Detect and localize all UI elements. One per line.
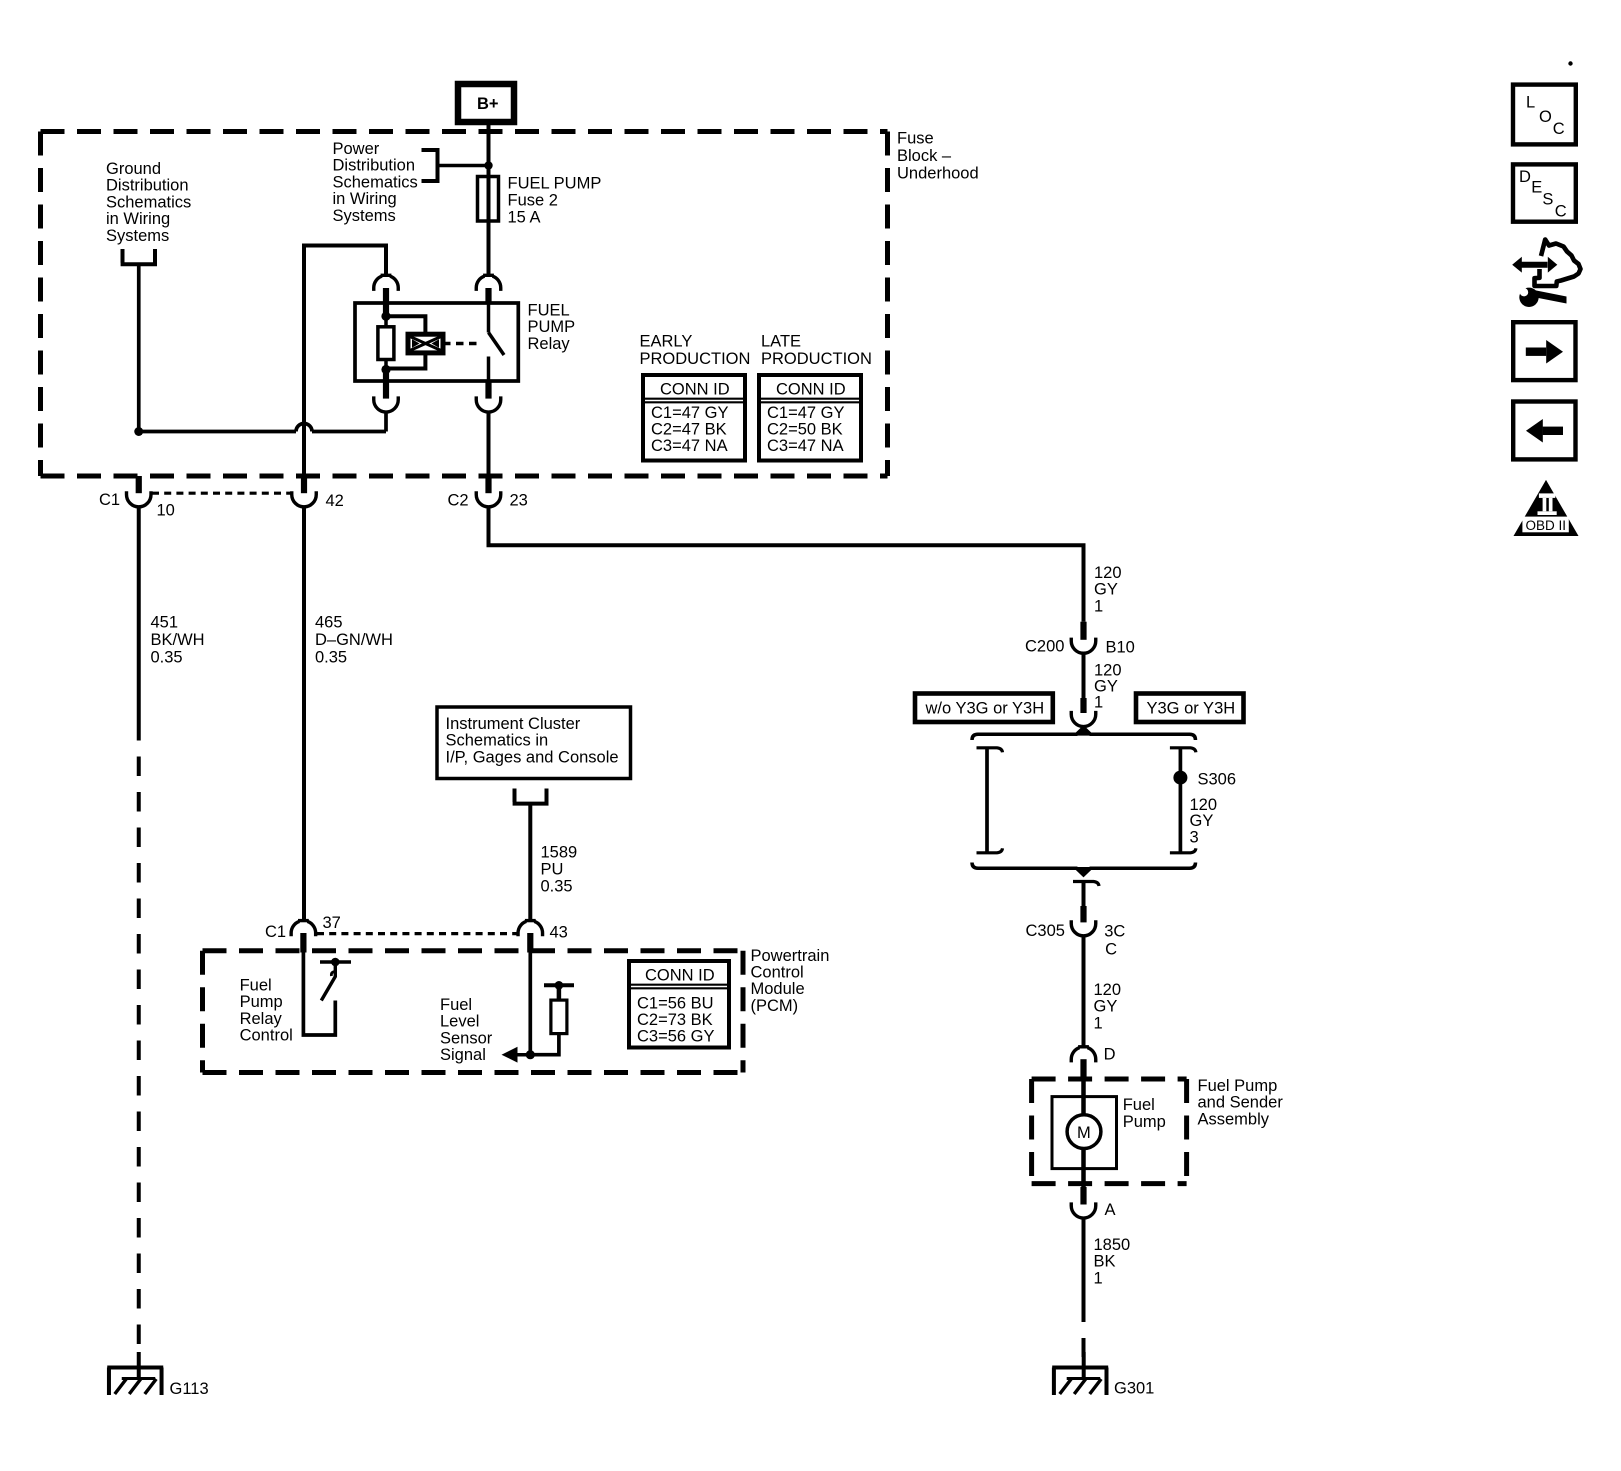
svg-text:C200: C200	[1025, 638, 1064, 656]
relay switch contact	[476, 275, 504, 381]
wire bracket to B+ node	[438, 164, 489, 168]
svg-text:C: C	[1553, 120, 1565, 138]
wire 465 D-GN/WH	[302, 507, 306, 921]
svg-text:B+: B+	[477, 95, 499, 113]
instrument cluster reference box	[437, 707, 631, 779]
svg-text:LATE: LATE	[761, 333, 801, 351]
svg-text:23: 23	[510, 492, 528, 510]
svg-text:OBD II: OBD II	[1526, 518, 1567, 533]
svg-text:EARLY: EARLY	[640, 333, 693, 351]
svg-text:C1: C1	[99, 491, 120, 509]
svg-text:C2=50 BK: C2=50 BK	[767, 421, 843, 439]
svg-text:3C: 3C	[1104, 923, 1125, 941]
svg-text:C3=56 GY: C3=56 GY	[637, 1027, 715, 1045]
option spread brace top	[972, 728, 1196, 740]
relay actuator dashed link	[443, 342, 482, 345]
power distribution bracket	[422, 150, 438, 181]
signal arrow	[502, 1047, 531, 1063]
connector C305 pin 3C/C	[1026, 882, 1126, 959]
svg-text:PRODUCTION: PRODUCTION	[761, 350, 872, 368]
icon LOC	[1513, 85, 1576, 145]
PCM internal pull-up resistor branch	[526, 981, 574, 1059]
svg-text:B10: B10	[1106, 638, 1135, 656]
svg-text:C2=47 BK: C2=47 BK	[651, 421, 727, 439]
svg-text:G113: G113	[170, 1380, 209, 1398]
fuse FUEL PUMP Fuse 2 15A	[478, 177, 499, 276]
relay FUEL PUMP Relay box	[355, 303, 518, 381]
icon next arrow	[1513, 322, 1575, 380]
PCM driver switch	[303, 953, 351, 1036]
wire C2 to C200	[489, 507, 1084, 622]
dotted connector link C1	[152, 492, 291, 495]
node junction dot	[484, 161, 492, 169]
relay internal resistor	[384, 316, 388, 369]
svg-text:C305: C305	[1026, 922, 1065, 940]
svg-text:CONN ID: CONN ID	[660, 381, 730, 399]
svg-text:C1: C1	[265, 923, 286, 941]
relay bottom connectors	[374, 370, 501, 412]
wire 1589 PU	[528, 805, 532, 921]
ground G113	[107, 1352, 208, 1398]
svg-text:C: C	[1105, 940, 1117, 958]
svg-text:M: M	[1077, 1124, 1091, 1142]
svg-text:C2=73 BK: C2=73 BK	[637, 1011, 713, 1029]
wire 1850 BK	[1082, 1218, 1086, 1303]
relay coil top connector	[374, 275, 399, 291]
icon DESC	[1513, 164, 1576, 221]
wire C305 to D	[1082, 936, 1086, 1048]
svg-text:S306: S306	[1198, 771, 1237, 789]
svg-text:E: E	[1531, 179, 1542, 197]
connector pin A	[1071, 1187, 1115, 1219]
svg-text:D: D	[1104, 1046, 1116, 1064]
svg-text:C: C	[1555, 203, 1567, 221]
connector pin 43 PCM	[518, 921, 568, 953]
wire relay 30 down to C2	[487, 412, 491, 477]
svg-text:C3=47 NA: C3=47 NA	[767, 437, 844, 455]
option box w/o Y3G or Y3H	[915, 694, 1053, 723]
ground distribution off-page bucket	[121, 249, 157, 264]
relay coil solenoid symbol	[408, 334, 443, 353]
svg-text:C1=47 GY: C1=47 GY	[651, 404, 729, 422]
option spread brace bottom	[972, 863, 1196, 875]
wire horizontal 42 to relay pin 86	[304, 246, 386, 477]
instrument cluster off-page bucket	[513, 789, 549, 804]
PCM CONN ID table	[629, 961, 729, 1048]
svg-text:43: 43	[550, 924, 568, 942]
option box Y3G or Y3H	[1136, 694, 1244, 723]
connector C1 pin 10	[99, 476, 175, 520]
wire 43 to sensor node	[528, 953, 532, 1055]
svg-text:G301: G301	[1114, 1380, 1154, 1398]
LATE PRODUCTION table	[759, 333, 872, 461]
svg-text:FUELPUMPRelay: FUELPUMPRelay	[528, 302, 576, 353]
dotted connector link PCM	[317, 932, 517, 935]
icon back arrow	[1513, 402, 1575, 460]
connector pin D	[1071, 1046, 1115, 1080]
wire C200 to splice spread	[1082, 653, 1086, 698]
svg-text:C3=47 NA: C3=47 NA	[651, 437, 728, 455]
svg-text:O: O	[1539, 108, 1552, 126]
svg-text:CONN ID: CONN ID	[776, 381, 846, 399]
svg-text:L: L	[1526, 94, 1535, 112]
fuel pump and sender assembly dashed box	[1032, 1079, 1187, 1184]
connector C200 pin B10	[1025, 622, 1135, 657]
wire 451 BK/WH	[137, 507, 141, 722]
fuel pump motor	[1052, 1079, 1117, 1190]
relay internal coil branch wire	[386, 316, 425, 368]
battery feed B+	[458, 84, 514, 122]
svg-text:C2: C2	[448, 492, 469, 510]
icon adjust hand wrench	[1511, 240, 1581, 307]
svg-text:w/o Y3G or Y3H: w/o Y3G or Y3H	[925, 700, 1045, 718]
wire relay 85 to ground wire with hop over 42 wire	[139, 266, 386, 432]
svg-text:10: 10	[157, 502, 175, 520]
EARLY PRODUCTION table	[640, 333, 751, 461]
svg-text:Y3G or Y3H: Y3G or Y3H	[1147, 700, 1236, 718]
svg-text:37: 37	[323, 914, 341, 932]
branch wire Y3G with splice S306	[1170, 748, 1196, 853]
svg-text:S: S	[1542, 190, 1553, 208]
splice S306	[1173, 771, 1187, 785]
connector C1 pin 37 PCM	[265, 914, 341, 953]
stray dot	[1568, 61, 1572, 65]
svg-text:A: A	[1105, 1201, 1116, 1219]
fuse block underhood dashed box	[41, 132, 888, 477]
svg-text:C1=56 BU: C1=56 BU	[637, 995, 714, 1013]
svg-text:D: D	[1519, 168, 1531, 186]
inline connector at option split	[1071, 698, 1096, 727]
svg-text:PRODUCTION: PRODUCTION	[640, 350, 751, 368]
svg-text:CONN ID: CONN ID	[645, 967, 715, 985]
connector pin 42	[292, 476, 344, 510]
ground G301	[1052, 1352, 1154, 1398]
wire B+ to fuse	[487, 122, 491, 177]
svg-text:42: 42	[326, 492, 344, 510]
PCM dashed box	[203, 951, 744, 1073]
connector C2 pin 23	[448, 476, 528, 510]
icon OBD II	[1514, 480, 1579, 536]
branch wire without Y3G	[977, 748, 1003, 853]
svg-text:C1=47 GY: C1=47 GY	[767, 404, 845, 422]
